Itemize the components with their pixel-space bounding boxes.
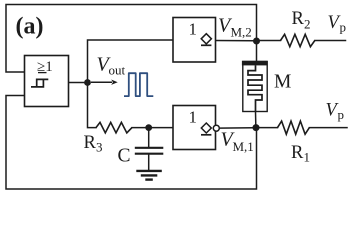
resistor R1: [278, 121, 310, 134]
wire: node V_M,1 to resistor R1: [259, 127, 278, 129]
wire: resistor R1 to terminal V_p (bottom): [309, 127, 347, 129]
node V_out: junction dot at OR gate output: [84, 79, 91, 86]
label V_out (blue): [97, 54, 126, 78]
op-amp U1: Schmitt-trigger OR gate box (&#8805;1): [25, 56, 69, 107]
svg-text:1: 1: [189, 108, 198, 127]
capacitor C: [135, 129, 164, 170]
svg-text:3: 3: [96, 140, 103, 155]
wire: feedback loop from node V_M,1 along bottom and left to OR gate input B: [6, 96, 257, 190]
waveform: output square-wave glyph (blue): [124, 73, 153, 96]
label ≥1 inside OR gate U1: [37, 59, 53, 75]
arrow marking V_out: [91, 80, 118, 85]
buffer U2: open-drain buffer gate (top): [173, 18, 216, 63]
svg-text:M: M: [274, 72, 291, 93]
svg-text:p: p: [340, 20, 347, 35]
node V_M,1: junction dot: [253, 124, 260, 131]
label V_M,1 (blue): [221, 129, 254, 155]
wire: OR gate output to V_out junction: [69, 82, 88, 84]
wire: buffer U2 output to node V_M,2: [216, 40, 255, 42]
wire: node V_M,2 to resistor R2: [259, 40, 281, 42]
svg-text:C: C: [118, 146, 131, 167]
svg-text:out: out: [109, 63, 126, 78]
label R2: [292, 9, 311, 32]
memristor M: [242, 61, 268, 112]
open-drain diamond symbol inside buffer U2: [201, 34, 211, 46]
wire: buffer U3 output bubble to node V_M,1: [220, 127, 253, 129]
svg-text:R: R: [84, 133, 97, 153]
label V_p (top terminal): [328, 13, 347, 35]
label V_M,2 (blue): [218, 15, 252, 40]
svg-text:2: 2: [304, 17, 311, 32]
svg-text:1: 1: [304, 150, 311, 165]
svg-text:(a): (a): [16, 14, 44, 40]
wire: memristor M down to node V_M,1: [255, 112, 257, 126]
buffer U3: open-drain inverter gate (bottom): [173, 106, 216, 150]
open-drain diamond symbol inside buffer U3: [201, 123, 211, 135]
svg-text:1: 1: [189, 20, 198, 39]
wire: resistor R2 to terminal V_p (top): [315, 40, 346, 42]
label V_p (bottom terminal): [326, 101, 345, 123]
wire: V_out junction down to R3: [88, 83, 97, 128]
label R1: [291, 143, 310, 165]
resistor R3: [96, 122, 132, 132]
wire: feedback loop from node V_M,2 along top and left to OR gate input A: [6, 5, 257, 73]
ground symbol: [136, 171, 162, 180]
node: junction of R3, C and U3 input: [145, 124, 152, 131]
wire: node V_M,2 down to memristor M: [256, 43, 258, 62]
label R3: [84, 133, 103, 155]
hysteresis (Schmitt) symbol inside OR gate U1: [31, 79, 48, 87]
svg-text:M,2: M,2: [231, 25, 252, 40]
wire: R3 to capacitor junction and buffer U3 input: [132, 127, 173, 129]
svg-text:M,1: M,1: [233, 139, 254, 154]
inversion bubble on U3 output: [213, 125, 219, 131]
svg-text:R: R: [292, 9, 305, 29]
node V_M,2: junction dot: [253, 38, 260, 45]
svg-text:p: p: [338, 107, 345, 122]
resistor R2: [281, 34, 315, 46]
wire: V_out junction up and right to buffer U2 input: [88, 40, 174, 83]
svg-text:R: R: [291, 143, 304, 163]
